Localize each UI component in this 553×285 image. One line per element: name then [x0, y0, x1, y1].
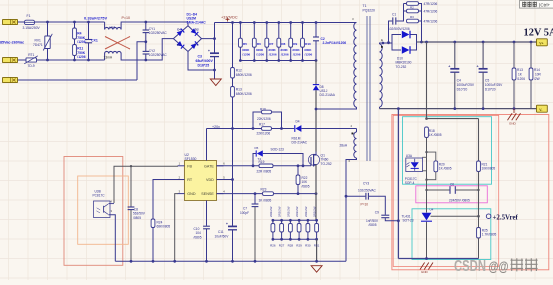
svg-text:R14: R14	[534, 68, 540, 72]
svg-text:R12: R12	[236, 69, 242, 73]
svg-text:/0805: /0805	[369, 223, 377, 227]
svg-text:GND: GND	[187, 192, 196, 196]
svg-text:22R /0805: 22R /0805	[257, 170, 272, 174]
svg-text:U3A: U3A	[406, 154, 413, 158]
svg-text:@@: @@	[489, 258, 509, 274]
svg-text:T1: T1	[363, 4, 367, 8]
svg-text:/1206: /1206	[77, 55, 85, 59]
svg-text:R8: R8	[281, 42, 285, 46]
svg-text:(Ctrl+: (Ctrl+	[539, 3, 551, 8]
svg-text:/1206: /1206	[77, 40, 85, 44]
svg-text:10K/0805: 10K/0805	[482, 167, 496, 171]
svg-text:R26: R26	[270, 244, 276, 248]
svg-text:2R2/2W: 2R2/2W	[313, 206, 317, 217]
svg-text:C1: C1	[392, 12, 396, 16]
svg-text:C11: C11	[218, 230, 224, 234]
svg-text:R29: R29	[296, 244, 302, 248]
svg-text:13mH: 13mH	[104, 55, 113, 59]
svg-text:D4: D4	[296, 120, 300, 124]
svg-text:C7: C7	[243, 206, 247, 210]
svg-text:C6: C6	[450, 182, 454, 186]
svg-text:R3: R3	[410, 15, 414, 19]
svg-text:+: +	[477, 64, 479, 68]
svg-text:P=10: P=10	[361, 202, 369, 206]
svg-text:2R2/2W: 2R2/2W	[295, 206, 299, 217]
svg-text:/0805: /0805	[302, 184, 310, 188]
svg-text:/1206: /1206	[281, 53, 289, 57]
svg-text:C5: C5	[485, 79, 489, 83]
svg-text:P=10: P=10	[122, 16, 131, 20]
svg-text:C3: C3	[198, 55, 203, 59]
svg-text:R31: R31	[314, 244, 320, 248]
svg-text:/1206: /1206	[256, 53, 264, 57]
svg-text:/1206: /1206	[517, 77, 525, 81]
svg-text:+20v: +20v	[212, 125, 220, 129]
svg-text:R28: R28	[288, 244, 294, 248]
svg-text:R16: R16	[260, 107, 266, 111]
svg-text:+: +	[226, 222, 228, 226]
svg-text:LF1: LF1	[110, 25, 116, 29]
svg-text:1000uF/25V: 1000uF/25V	[485, 83, 503, 87]
svg-text:R9: R9	[293, 42, 297, 46]
svg-text:12V 5A: 12V 5A	[524, 27, 553, 38]
svg-text:D1: D1	[194, 42, 198, 46]
svg-text:300K: 300K	[256, 48, 264, 52]
svg-text:R17: R17	[259, 123, 265, 127]
svg-text:102/250VAC: 102/250VAC	[149, 53, 168, 57]
svg-text:D4: D4	[177, 27, 181, 31]
svg-text:10R: 10R	[535, 73, 542, 77]
svg-text:224/50V /0805: 224/50V /0805	[449, 198, 470, 202]
svg-text:/1206: /1206	[305, 53, 313, 57]
svg-text:+: +	[448, 64, 450, 68]
svg-text:+310VDC: +310VDC	[221, 15, 238, 19]
svg-text:7D-9: 7D-9	[28, 64, 35, 68]
svg-text:1.7K/0805: 1.7K/0805	[482, 233, 497, 237]
svg-text:680K/1206: 680K/1206	[236, 73, 252, 77]
svg-text:28uH: 28uH	[340, 144, 348, 148]
svg-text:300K: 300K	[242, 48, 250, 52]
svg-text:R27: R27	[279, 244, 285, 248]
svg-text:10uF/50V: 10uF/50V	[215, 235, 230, 239]
svg-text:PQ3220: PQ3220	[363, 9, 376, 13]
svg-text:VDD: VDD	[206, 178, 214, 182]
svg-text:PC817C: PC817C	[93, 194, 106, 198]
svg-text:0.33uF/275V: 0.33uF/275V	[84, 16, 107, 21]
svg-text:2R2/2W: 2R2/2W	[304, 206, 308, 217]
svg-text:R10: R10	[305, 42, 311, 46]
svg-text:22K/1206: 22K/1206	[257, 117, 271, 121]
svg-text:D10*20: D10*20	[457, 88, 468, 92]
svg-text:D2: D2	[195, 27, 199, 31]
svg-text:D10: D10	[397, 56, 403, 60]
svg-text:FB: FB	[187, 164, 192, 168]
svg-text:/2W: /2W	[534, 77, 540, 81]
svg-text:680K/1206: 680K/1206	[236, 92, 252, 96]
svg-text:TO-252: TO-252	[321, 162, 332, 166]
svg-text:1K /0805: 1K /0805	[429, 133, 442, 137]
svg-text:F1: F1	[27, 14, 31, 18]
svg-text:C9: C9	[375, 210, 379, 214]
svg-text:/0805: /0805	[194, 235, 202, 239]
svg-text:CSDN: CSDN	[454, 258, 486, 275]
svg-text:RT1: RT1	[28, 53, 34, 57]
svg-text:GND: GND	[421, 270, 429, 274]
svg-text:2R2/2W: 2R2/2W	[286, 206, 290, 217]
svg-text:1000uF/25V: 1000uF/25V	[457, 83, 475, 87]
svg-text:47R/1206: 47R/1206	[424, 2, 438, 6]
svg-text:68K/0805: 68K/0805	[157, 225, 171, 229]
svg-text:R6: R6	[257, 42, 261, 46]
svg-text:1K /0805: 1K /0805	[439, 167, 452, 171]
svg-text:3.15A/250V: 3.15A/250V	[23, 26, 41, 30]
svg-text:47R/1206: 47R/1206	[424, 20, 438, 24]
svg-text:300K: 300K	[280, 48, 288, 52]
svg-text:100pF: 100pF	[240, 211, 249, 215]
svg-text:85Vac-260Vac: 85Vac-260Vac	[0, 41, 24, 45]
svg-text:/1206: /1206	[242, 53, 250, 57]
svg-text:SOP-4: SOP-4	[405, 181, 415, 185]
svg-text:7D471: 7D471	[33, 43, 43, 47]
svg-text:68uF/400V: 68uF/400V	[196, 59, 214, 63]
svg-text:300K: 300K	[292, 48, 300, 52]
svg-text:/1206: /1206	[269, 53, 277, 57]
svg-text:SF1530: SF1530	[185, 157, 197, 161]
svg-text:U4: U4	[430, 208, 434, 212]
svg-text:D3: D3	[177, 43, 181, 47]
svg-text:300K: 300K	[304, 48, 312, 52]
svg-text:DO-214AC: DO-214AC	[292, 141, 308, 145]
svg-text:1K /0805: 1K /0805	[259, 199, 272, 203]
svg-text:R2: R2	[410, 5, 414, 9]
svg-text:+2.5Vref: +2.5Vref	[493, 214, 519, 221]
svg-text:R13: R13	[236, 88, 242, 92]
svg-text:T4: T4	[258, 157, 262, 161]
svg-text:102/500V/1206: 102/500V/1206	[388, 27, 410, 31]
svg-text:R30: R30	[305, 244, 311, 248]
svg-text:CX1: CX1	[91, 39, 98, 43]
svg-text:/0805: /0805	[133, 216, 141, 220]
svg-text:SMA-214AC: SMA-214AC	[187, 21, 207, 25]
svg-text:2R2/2W: 2R2/2W	[278, 206, 282, 217]
svg-text:R23: R23	[261, 187, 267, 191]
svg-text:22K/1206: 22K/1206	[257, 132, 271, 136]
svg-text:SOD-123: SOD-123	[271, 147, 285, 151]
svg-text:+: +	[208, 49, 210, 53]
svg-text:2R2/2W: 2R2/2W	[269, 206, 273, 217]
svg-text:D16*25: D16*25	[198, 64, 210, 68]
svg-text:RT: RT	[187, 178, 193, 182]
svg-text:GATE: GATE	[204, 164, 214, 168]
svg-text:TO-252: TO-252	[396, 65, 407, 69]
svg-text:D5: D5	[255, 146, 259, 150]
svg-text:R7: R7	[269, 42, 273, 46]
svg-text:DO-214AA: DO-214AA	[320, 93, 336, 97]
svg-text:47R/1206: 47R/1206	[424, 10, 438, 14]
svg-text:300K: 300K	[268, 48, 276, 52]
svg-text:V+: V+	[539, 41, 543, 45]
svg-text:102/250VAC: 102/250VAC	[358, 188, 377, 192]
svg-text:R13: R13	[517, 68, 523, 72]
svg-text:CY3: CY3	[363, 182, 369, 186]
svg-text:SOT-23: SOT-23	[403, 219, 414, 223]
svg-text:C4: C4	[457, 79, 461, 83]
svg-text:SENSE: SENSE	[201, 192, 214, 196]
svg-text:V-: V-	[539, 108, 542, 112]
svg-text:2.2nF/1kV/1206: 2.2nF/1kV/1206	[323, 41, 347, 45]
svg-text:GND: GND	[509, 122, 517, 126]
svg-text:D10*20: D10*20	[485, 88, 496, 92]
svg-text:R5: R5	[243, 42, 247, 46]
svg-text:102/250VAC: 102/250VAC	[149, 31, 168, 35]
svg-text:/1206: /1206	[293, 53, 301, 57]
